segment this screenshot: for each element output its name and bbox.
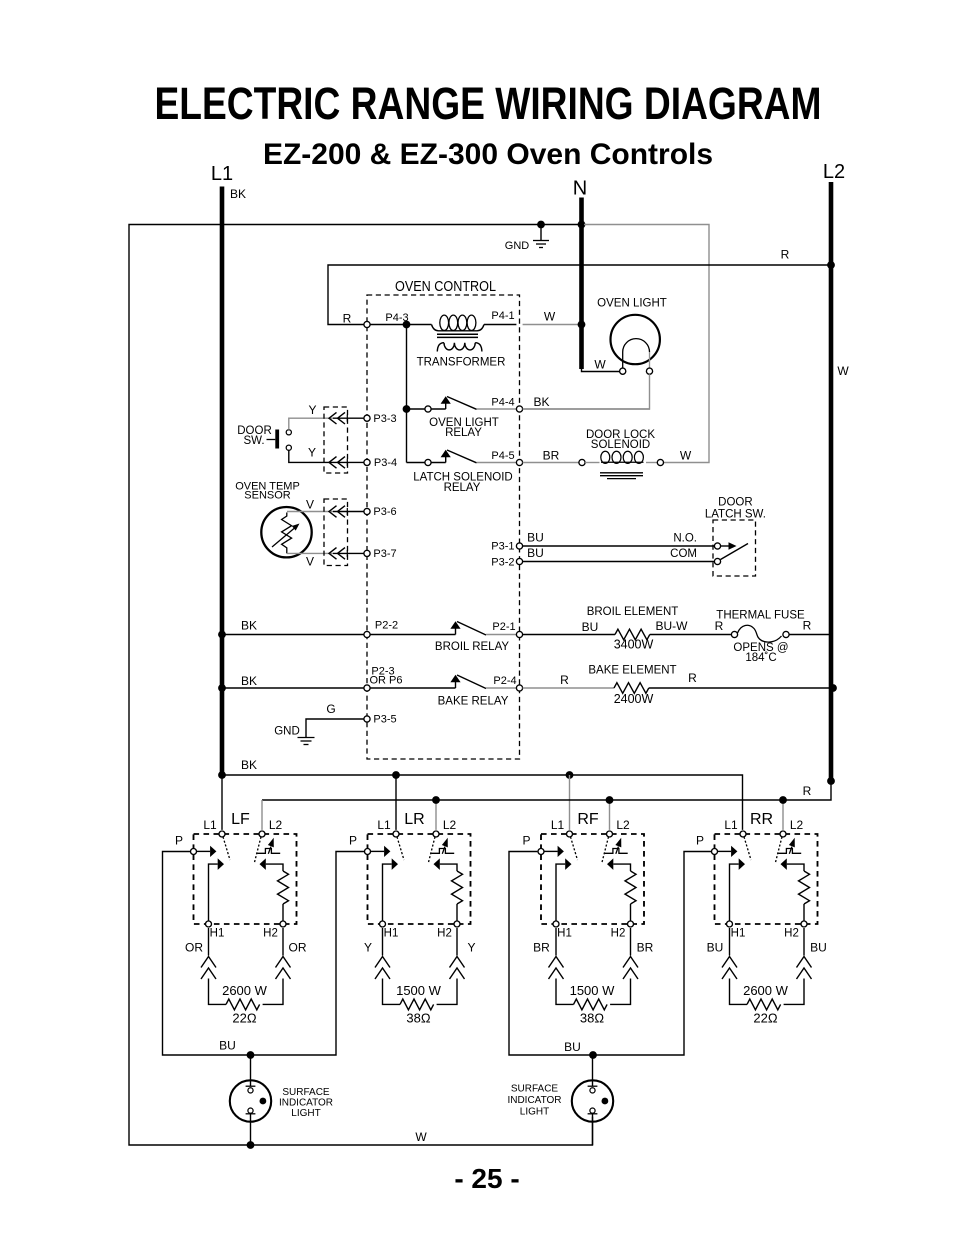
svg-text:H1: H1 — [557, 928, 572, 940]
svg-text:P2-4: P2-4 — [493, 675, 516, 687]
svg-text:BROIL RELAY: BROIL RELAY — [435, 641, 509, 653]
svg-text:BU: BU — [219, 1039, 236, 1053]
svg-text:P4-4: P4-4 — [491, 397, 514, 409]
svg-text:P: P — [349, 834, 357, 848]
svg-text:OVEN CONTROL: OVEN CONTROL — [395, 278, 496, 295]
svg-text:L2: L2 — [823, 161, 845, 183]
svg-text:OVEN LIGHT: OVEN LIGHT — [597, 298, 667, 310]
svg-text:W: W — [415, 1130, 427, 1144]
svg-text:22Ω: 22Ω — [753, 1011, 777, 1026]
svg-text:38Ω: 38Ω — [580, 1011, 604, 1026]
svg-text:V: V — [306, 555, 314, 569]
svg-text:R: R — [803, 784, 812, 798]
svg-text:SOLENOID: SOLENOID — [591, 439, 650, 451]
svg-text:L1: L1 — [551, 818, 565, 832]
svg-text:P: P — [522, 834, 530, 848]
svg-text:W: W — [544, 310, 556, 324]
svg-text:W: W — [837, 364, 849, 378]
svg-text:DOOR: DOOR — [718, 497, 753, 509]
svg-text:RELAY: RELAY — [444, 482, 481, 494]
svg-text:P4-5: P4-5 — [491, 450, 514, 462]
svg-text:R: R — [688, 671, 697, 685]
svg-text:SURFACE: SURFACE — [511, 1084, 559, 1095]
svg-text:BR: BR — [637, 941, 654, 955]
svg-text:22Ω: 22Ω — [232, 1011, 256, 1026]
svg-text:Y: Y — [308, 446, 316, 460]
svg-text:RR: RR — [750, 811, 773, 828]
svg-text:2600 W: 2600 W — [222, 983, 268, 998]
svg-text:BU: BU — [527, 531, 544, 545]
svg-text:SURFACE: SURFACE — [282, 1087, 330, 1098]
svg-text:L2: L2 — [616, 818, 630, 832]
svg-text:LATCH SW.: LATCH SW. — [705, 508, 766, 520]
svg-text:P2-2: P2-2 — [375, 620, 398, 632]
svg-text:BU: BU — [564, 1040, 581, 1054]
svg-text:LR: LR — [404, 811, 424, 828]
svg-text:THERMAL FUSE: THERMAL FUSE — [716, 610, 805, 622]
svg-text:L2: L2 — [269, 818, 283, 832]
svg-text:2400W: 2400W — [614, 692, 654, 706]
svg-text:R: R — [803, 619, 812, 633]
svg-text:P3-7: P3-7 — [373, 548, 396, 560]
svg-text:N: N — [573, 178, 587, 200]
svg-text:W: W — [594, 358, 606, 372]
svg-text:3400W: 3400W — [614, 638, 654, 652]
svg-text:BAKE RELAY: BAKE RELAY — [438, 696, 509, 708]
svg-text:H2: H2 — [437, 928, 452, 940]
svg-text:N.O.: N.O. — [673, 533, 697, 545]
svg-text:P3-6: P3-6 — [373, 506, 396, 518]
svg-text:P3-5: P3-5 — [373, 714, 396, 726]
svg-text:EZ-200 & EZ-300 Oven Controls: EZ-200 & EZ-300 Oven Controls — [263, 138, 713, 171]
svg-text:LIGHT: LIGHT — [291, 1108, 320, 1119]
svg-text:RF: RF — [577, 811, 599, 828]
svg-text:OR: OR — [185, 941, 203, 955]
svg-text:BU: BU — [527, 546, 544, 560]
svg-text:BK: BK — [533, 395, 549, 409]
svg-text:P3-3: P3-3 — [373, 413, 396, 425]
svg-text:COM: COM — [670, 548, 697, 560]
svg-text:P2-1: P2-1 — [492, 621, 515, 633]
svg-text:H1: H1 — [731, 928, 746, 940]
svg-text:H1: H1 — [384, 928, 399, 940]
svg-text:38Ω: 38Ω — [406, 1011, 430, 1026]
svg-text:INDICATOR: INDICATOR — [507, 1095, 561, 1106]
svg-text:BK: BK — [241, 674, 257, 688]
svg-text:SW.: SW. — [243, 435, 264, 447]
svg-text:H2: H2 — [611, 928, 626, 940]
svg-text:BK: BK — [230, 187, 246, 201]
svg-text:BAKE ELEMENT: BAKE ELEMENT — [588, 665, 676, 677]
svg-text:- 25 -: - 25 - — [454, 1163, 519, 1194]
svg-text:L2: L2 — [443, 818, 457, 832]
svg-text:BR: BR — [533, 941, 550, 955]
svg-text:LF: LF — [231, 811, 250, 828]
svg-text:H2: H2 — [784, 928, 799, 940]
svg-text:Y: Y — [364, 941, 372, 955]
svg-text:ELECTRIC RANGE WIRING DIAGRAM: ELECTRIC RANGE WIRING DIAGRAM — [155, 78, 822, 129]
svg-text:LIGHT: LIGHT — [520, 1106, 549, 1117]
svg-text:R: R — [781, 248, 790, 262]
svg-text:184˚C: 184˚C — [745, 652, 776, 664]
svg-text:Y: Y — [308, 403, 316, 417]
svg-text:BU-W: BU-W — [656, 619, 689, 633]
svg-text:W: W — [680, 449, 692, 463]
svg-text:1500 W: 1500 W — [570, 983, 616, 998]
svg-text:V: V — [306, 498, 314, 512]
svg-text:GND: GND — [274, 725, 300, 737]
svg-text:2600 W: 2600 W — [743, 983, 789, 998]
svg-text:BROIL ELEMENT: BROIL ELEMENT — [587, 606, 679, 618]
svg-text:BR: BR — [543, 449, 560, 463]
svg-text:BK: BK — [241, 619, 257, 633]
svg-text:BU: BU — [582, 620, 599, 634]
svg-text:P3-2: P3-2 — [491, 556, 514, 568]
svg-text:L1: L1 — [724, 818, 738, 832]
svg-text:SENSOR: SENSOR — [244, 490, 291, 502]
svg-text:OR: OR — [289, 941, 307, 955]
svg-text:P: P — [696, 834, 704, 848]
svg-text:1500 W: 1500 W — [396, 983, 442, 998]
svg-text:P4-1: P4-1 — [491, 310, 514, 322]
svg-text:BK: BK — [241, 758, 257, 772]
svg-text:RELAY: RELAY — [445, 427, 482, 439]
svg-text:H2: H2 — [263, 928, 278, 940]
svg-text:P3-1: P3-1 — [491, 541, 514, 553]
svg-text:L1: L1 — [377, 818, 391, 832]
svg-text:R: R — [343, 312, 352, 326]
svg-text:BU: BU — [707, 941, 724, 955]
svg-text:L2: L2 — [790, 818, 804, 832]
svg-text:P3-4: P3-4 — [374, 457, 397, 469]
svg-text:GND: GND — [505, 240, 530, 252]
svg-text:H1: H1 — [210, 928, 225, 940]
svg-text:L1: L1 — [203, 818, 217, 832]
svg-text:Y: Y — [467, 941, 475, 955]
svg-text:L1: L1 — [211, 163, 233, 185]
svg-text:TRANSFORMER: TRANSFORMER — [417, 356, 506, 368]
svg-text:BU: BU — [810, 941, 827, 955]
svg-text:P: P — [175, 834, 183, 848]
svg-text:G: G — [326, 702, 335, 716]
svg-text:P4-3: P4-3 — [385, 312, 408, 324]
svg-text:R: R — [560, 673, 569, 687]
svg-text:OR P6: OR P6 — [369, 675, 402, 687]
